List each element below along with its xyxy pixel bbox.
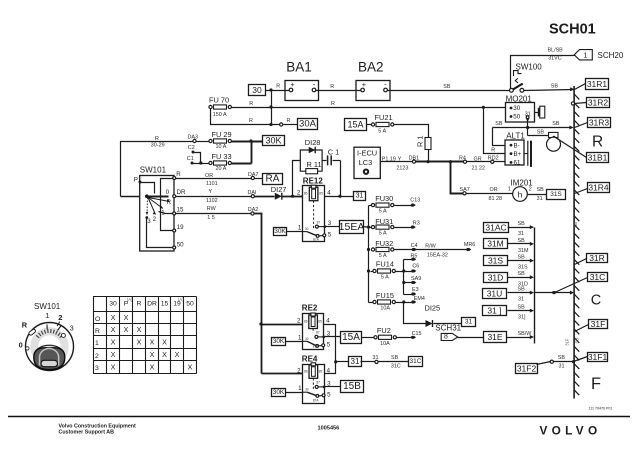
svg-text:X: X xyxy=(111,350,116,359)
wire SB row to ground bus xyxy=(493,121,574,129)
svg-text:SB: SB xyxy=(518,221,526,227)
svg-text:30-29: 30-29 xyxy=(151,143,165,149)
svg-text:GR: GR xyxy=(474,157,482,163)
node RD2 xyxy=(488,155,499,163)
svg-text:10A: 10A xyxy=(380,341,390,347)
svg-text:O: O xyxy=(95,316,100,323)
svg-text:DA2: DA2 xyxy=(248,207,258,213)
svg-text:111 70476 P01: 111 70476 P01 xyxy=(589,407,613,411)
terminal 31F2 with wire xyxy=(516,355,574,374)
fuse FU29 xyxy=(209,130,232,150)
svg-text:RA: RA xyxy=(266,174,280,185)
wire RW 15 row (15 terminal) xyxy=(176,206,252,221)
wire RD2 to ALT1 61 xyxy=(494,161,510,163)
svg-text:1101: 1101 xyxy=(206,181,218,187)
box 31C (RE4 row) xyxy=(409,357,423,367)
svg-text:DI28: DI28 xyxy=(305,138,321,147)
diode DI25 xyxy=(425,304,441,328)
box 31S (IM201) xyxy=(547,190,566,200)
diode DI28 with loop xyxy=(300,138,322,171)
svg-text:X: X xyxy=(111,363,116,372)
svg-text:31: 31 xyxy=(465,319,473,326)
svg-text:87: 87 xyxy=(316,381,320,385)
svg-text:30: 30 xyxy=(252,85,262,95)
svg-text:31S: 31S xyxy=(550,191,562,198)
wire FU15 to EM4 xyxy=(369,296,425,304)
svg-text:DI25: DI25 xyxy=(425,304,441,313)
svg-text:15: 15 xyxy=(177,207,184,214)
svg-text:1: 1 xyxy=(95,340,99,347)
svg-text:C15: C15 xyxy=(412,331,422,337)
fuse FU33 xyxy=(209,152,232,172)
terminal 31M xyxy=(484,239,508,249)
svg-text:2: 2 xyxy=(58,313,62,322)
wire fuse bus vertical xyxy=(367,206,370,303)
fuse FU30 xyxy=(369,205,372,207)
svg-text:85: 85 xyxy=(318,320,322,324)
svg-text:1: 1 xyxy=(298,334,302,341)
box 31 (RE12) xyxy=(354,192,366,201)
terminal 31R3 xyxy=(575,123,588,128)
fuse FU21 xyxy=(367,124,372,126)
ignition key switch SW101 (pictorial) xyxy=(19,302,74,371)
svg-text:10 A: 10 A xyxy=(216,144,227,150)
battery BA1 xyxy=(285,60,319,101)
svg-text:Y: Y xyxy=(398,157,402,163)
wire 15EA to fuse bus xyxy=(363,226,372,229)
box 30A xyxy=(298,119,318,130)
svg-text:30K: 30K xyxy=(274,228,286,235)
wire FU70 feed to 30A xyxy=(211,109,298,127)
ignition switch SW101 (contact diagram) xyxy=(134,165,186,251)
svg-text:31C: 31C xyxy=(590,272,606,282)
fuse FU2 xyxy=(362,337,374,339)
svg-text:X: X xyxy=(162,338,167,347)
wire 30K to RE2 pin1 xyxy=(286,341,303,343)
svg-text:R: R xyxy=(287,118,291,124)
svg-text:2: 2 xyxy=(153,216,157,223)
svg-text:150 A: 150 A xyxy=(213,112,227,118)
svg-text:31C: 31C xyxy=(391,364,401,370)
svg-text:FU32: FU32 xyxy=(375,239,393,248)
svg-text:50: 50 xyxy=(177,242,184,249)
svg-text:SB: SB xyxy=(518,255,526,261)
box 15B xyxy=(341,381,364,393)
svg-text:31: 31 xyxy=(356,193,364,200)
box 31 (RE4 row) xyxy=(336,361,349,363)
wire SW101-30 entry xyxy=(121,196,140,198)
svg-text:BL/SB: BL/SB xyxy=(548,48,564,54)
wire 31U row to ground bus xyxy=(535,291,575,295)
off-page connector SCH31 xyxy=(435,324,461,341)
svg-text:R: R xyxy=(276,84,280,90)
svg-text:2: 2 xyxy=(95,353,99,360)
wire FU33 to junction xyxy=(232,163,252,165)
svg-text:2: 2 xyxy=(529,187,532,193)
svg-text:3: 3 xyxy=(70,323,74,332)
svg-text:2: 2 xyxy=(297,190,301,197)
node DB1 xyxy=(409,156,420,164)
svg-text:31AC: 31AC xyxy=(485,223,506,233)
svg-text:C1: C1 xyxy=(187,156,194,162)
node DA1 xyxy=(248,190,257,198)
terminal 31S xyxy=(484,256,508,266)
svg-text:50: 50 xyxy=(513,114,520,121)
svg-text:SB: SB xyxy=(391,355,399,361)
node R5 xyxy=(404,254,418,261)
svg-text:5 A: 5 A xyxy=(379,231,387,237)
svg-text:10A: 10A xyxy=(380,305,390,311)
wire RE4 pin3 to 15B xyxy=(325,386,341,388)
terminal 31E xyxy=(484,332,507,343)
svg-text:31S: 31S xyxy=(518,265,528,271)
wire bolt to 31B1 xyxy=(556,138,587,158)
svg-text:31M: 31M xyxy=(487,239,504,249)
svg-text:19: 19 xyxy=(177,224,184,231)
svg-text:SCH01: SCH01 xyxy=(549,22,596,38)
wire down to IM201 row xyxy=(451,162,463,194)
svg-text:R: R xyxy=(137,301,142,308)
wire C2/C1 junction xyxy=(193,153,209,165)
svg-text:X: X xyxy=(111,313,116,322)
svg-text:FU 33: FU 33 xyxy=(212,152,232,161)
svg-text:SCH20: SCH20 xyxy=(598,51,624,60)
box 30K at RE2 pin1 xyxy=(272,338,286,346)
svg-text:R: R xyxy=(167,199,172,206)
svg-text:FU2: FU2 xyxy=(377,326,391,335)
svg-text:BA1: BA1 xyxy=(286,60,312,75)
wire FU29 to 30K xyxy=(232,139,263,163)
svg-text:50: 50 xyxy=(186,301,194,308)
terminal 31C (C section) xyxy=(553,278,588,295)
svg-text:Y: Y xyxy=(209,189,213,195)
resistor R11 xyxy=(306,160,322,174)
wire 30K to RE4 pin1 xyxy=(286,392,303,394)
svg-text:31R2: 31R2 xyxy=(588,98,609,108)
terminal 31R4 xyxy=(575,189,588,194)
svg-text:85: 85 xyxy=(319,369,323,373)
svg-text:87: 87 xyxy=(316,331,320,335)
fuse FU31 xyxy=(371,217,394,236)
switch position table xyxy=(93,297,197,374)
svg-text:31R1: 31R1 xyxy=(587,79,608,89)
svg-text:30: 30 xyxy=(513,105,520,112)
svg-text:31 ]: 31 ] xyxy=(487,306,501,316)
svg-text:EM4: EM4 xyxy=(414,296,425,302)
svg-text:1102: 1102 xyxy=(206,198,218,204)
node DA2 xyxy=(248,207,258,215)
svg-text:5 A: 5 A xyxy=(378,129,386,135)
svg-text:R: R xyxy=(249,118,253,124)
svg-text:15EA-32: 15EA-32 xyxy=(427,253,448,259)
svg-text:86: 86 xyxy=(304,320,308,324)
svg-text:8: 8 xyxy=(444,334,448,341)
wire DA7 to RA xyxy=(255,178,263,180)
svg-text:5 A: 5 A xyxy=(381,274,389,280)
svg-text:SB: SB xyxy=(518,238,526,244)
wire ALT1 B- loop xyxy=(493,128,506,146)
svg-text:R/W: R/W xyxy=(425,243,436,249)
wire battery row y=90 xyxy=(266,84,575,91)
svg-text:X: X xyxy=(188,363,193,372)
svg-text:X: X xyxy=(150,338,155,347)
svg-text:R 1: R 1 xyxy=(416,135,425,147)
svg-text:SB: SB xyxy=(552,121,560,127)
svg-text:X: X xyxy=(137,325,142,334)
svg-text:R: R xyxy=(176,171,181,178)
svg-text:1005456: 1005456 xyxy=(318,426,340,432)
svg-text:30: 30 xyxy=(305,227,309,231)
svg-text:2: 2 xyxy=(297,318,301,325)
svg-text:R5: R5 xyxy=(411,254,418,260)
svg-text:(A): (A) xyxy=(178,297,184,302)
node SA9 xyxy=(404,276,422,284)
svg-text:X: X xyxy=(175,350,180,359)
svg-text:C2: C2 xyxy=(188,145,195,151)
svg-text:5: 5 xyxy=(327,341,331,348)
svg-text:31: 31 xyxy=(351,357,360,366)
svg-text:X: X xyxy=(150,363,155,372)
wire bus y=107 to MO201 xyxy=(232,101,510,109)
wire R1 to DB1 row xyxy=(426,150,429,164)
wire RE12 pin4 to 31 box xyxy=(325,196,354,198)
ground bus R/C/F xyxy=(574,86,579,399)
svg-text:P1.19: P1.19 xyxy=(382,157,396,163)
svg-text:VOLVO: VOLVO xyxy=(540,424,602,438)
svg-text:31F1: 31F1 xyxy=(588,352,608,362)
svg-text:20 A: 20 A xyxy=(216,166,227,172)
svg-text:SB: SB xyxy=(537,129,545,135)
terminal 31U xyxy=(483,289,507,299)
svg-text:87A: 87A xyxy=(313,237,320,241)
node E3 xyxy=(404,287,419,296)
svg-text:FU31: FU31 xyxy=(375,217,393,226)
svg-text:31R4: 31R4 xyxy=(588,183,609,193)
box 15A (RE2) xyxy=(341,332,362,344)
bus 31 collector vertical xyxy=(534,228,536,344)
svg-text:31S: 31S xyxy=(488,256,503,266)
svg-text:31F: 31F xyxy=(591,319,606,329)
hour meter IM201 xyxy=(511,179,534,202)
svg-text:15EA: 15EA xyxy=(339,221,365,233)
battery BA2 xyxy=(356,60,390,101)
svg-text:31B1: 31B1 xyxy=(588,153,608,163)
box 30K at RE12 pin1 xyxy=(274,228,287,236)
svg-text:31F: 31F xyxy=(565,338,570,346)
svg-text:X: X xyxy=(111,325,116,334)
svg-text:30K: 30K xyxy=(265,136,281,146)
svg-text:21 22: 21 22 xyxy=(472,166,486,172)
starter motor symbol xyxy=(535,106,545,118)
svg-text:30A: 30A xyxy=(299,119,317,130)
svg-text:DA7: DA7 xyxy=(248,172,259,178)
off-page connector SCH20 xyxy=(574,50,624,60)
svg-text:15A: 15A xyxy=(347,120,363,130)
svg-text:RE2: RE2 xyxy=(302,304,318,313)
svg-text:B-: B- xyxy=(514,142,520,149)
wire FU32 R/W to MR6 xyxy=(395,242,476,259)
wire FU31 to R3 xyxy=(395,220,420,228)
svg-text:31: 31 xyxy=(373,355,379,361)
svg-text:15B: 15B xyxy=(343,381,361,392)
svg-text:R3: R3 xyxy=(413,220,420,226)
svg-text:31F2: 31F2 xyxy=(517,364,537,374)
terminal 31 ] xyxy=(483,306,507,316)
svg-text:1: 1 xyxy=(298,225,302,232)
svg-text:C13: C13 xyxy=(410,198,420,204)
svg-text:E3: E3 xyxy=(412,287,419,293)
node DA3 xyxy=(188,134,199,142)
ground bolt B1 xyxy=(547,132,561,151)
fuse FU15 xyxy=(373,291,396,311)
svg-text:SB: SB xyxy=(495,121,503,127)
box 15EA xyxy=(339,221,365,234)
svg-text:31R: 31R xyxy=(589,253,605,263)
wire R 30-29 from SW101 feed xyxy=(121,136,193,197)
starter relay MO201 xyxy=(506,95,535,123)
svg-text:R 11: R 11 xyxy=(307,160,322,169)
svg-text:SB: SB xyxy=(518,305,526,311)
svg-text:C6: C6 xyxy=(412,264,419,270)
svg-text:SB: SB xyxy=(443,84,451,90)
svg-text:31: 31 xyxy=(518,297,524,303)
wire DI25 to 31 box xyxy=(434,323,462,325)
node C1 xyxy=(187,156,194,165)
box 15A (FU21 feed) xyxy=(345,119,367,131)
svg-text:SCH31: SCH31 xyxy=(435,324,461,333)
svg-text:31: 31 xyxy=(537,196,543,202)
svg-text:R: R xyxy=(491,148,495,154)
svg-text:X: X xyxy=(111,338,116,347)
switch SW100 xyxy=(510,62,543,92)
wire DA2 down to RE2/RE4 xyxy=(255,214,263,374)
svg-text:31VC: 31VC xyxy=(548,56,562,62)
svg-text:DR: DR xyxy=(147,301,157,308)
wire DA3 to FU29 xyxy=(197,141,209,143)
svg-text:Customer Support AB: Customer Support AB xyxy=(59,429,115,435)
wire suppression loop left leg xyxy=(293,161,301,197)
svg-text:87: 87 xyxy=(317,220,321,224)
terminal 31B1 xyxy=(587,153,609,163)
terminal 31F1 xyxy=(572,357,588,364)
svg-text:2123: 2123 xyxy=(396,165,408,171)
svg-text:FU 29: FU 29 xyxy=(212,130,232,139)
svg-text:RE4: RE4 xyxy=(302,355,318,364)
svg-text:30: 30 xyxy=(305,388,309,392)
svg-text:SB/W: SB/W xyxy=(518,331,533,337)
svg-text:R: R xyxy=(592,133,603,150)
box 31 (DI25) xyxy=(462,318,476,327)
relay RE12 xyxy=(297,176,332,241)
svg-text:F: F xyxy=(591,375,601,393)
svg-text:15A: 15A xyxy=(342,332,360,343)
wire SA7 to IM201 xyxy=(467,187,513,202)
svg-text:30: 30 xyxy=(305,337,309,341)
svg-text:MR6: MR6 xyxy=(464,242,475,248)
svg-text:SB: SB xyxy=(518,287,526,293)
svg-text:X: X xyxy=(150,350,155,359)
rotated labels 31F SB (C-F) xyxy=(565,338,580,346)
terminal 31R2 xyxy=(571,102,586,105)
svg-text:SB: SB xyxy=(518,271,526,277)
svg-text:RD2: RD2 xyxy=(488,155,499,161)
svg-text:X: X xyxy=(124,325,129,334)
node SA7 xyxy=(460,187,470,195)
svg-text:1: 1 xyxy=(583,51,587,60)
svg-text:1: 1 xyxy=(45,311,49,320)
wire MO201-31 down xyxy=(526,119,529,136)
svg-text:I-ECU: I-ECU xyxy=(357,149,377,158)
wire I-ECU 2123 row xyxy=(381,157,413,172)
wire DB1 to ALT1 row xyxy=(416,155,466,163)
svg-text:5: 5 xyxy=(327,391,331,398)
svg-text:15: 15 xyxy=(161,301,169,308)
svg-text:DR: DR xyxy=(177,189,186,196)
svg-text:30K: 30K xyxy=(273,338,285,345)
relay RE4 xyxy=(297,355,331,404)
terminal 31AC xyxy=(484,223,509,233)
wire DA1 to DI27 xyxy=(255,196,275,198)
svg-text:C4: C4 xyxy=(411,243,418,249)
svg-text:85: 85 xyxy=(319,192,323,196)
svg-text:X: X xyxy=(124,313,129,322)
svg-text:X: X xyxy=(162,350,167,359)
svg-text:5 A: 5 A xyxy=(379,209,387,215)
svg-text:X: X xyxy=(137,338,142,347)
svg-text:1: 1 xyxy=(298,385,302,392)
svg-text:30K: 30K xyxy=(273,389,285,396)
box 30 terminal xyxy=(249,85,266,96)
wire 31 to 31C xyxy=(361,355,409,370)
svg-text:SA7: SA7 xyxy=(460,187,470,193)
wire RE2 pin3 to 15A xyxy=(324,336,341,338)
svg-text:2: 2 xyxy=(297,367,301,374)
wire SCH31 to 31E xyxy=(458,337,484,339)
svg-text:FU21: FU21 xyxy=(375,113,393,122)
svg-text:31E: 31E xyxy=(487,332,502,342)
wire 30-box drop x=271 xyxy=(269,88,272,126)
wire loop right leg to pin4 row xyxy=(338,161,341,198)
svg-text:OR: OR xyxy=(490,187,498,193)
wire IM201 to 31S xyxy=(528,187,547,202)
wire DI27 to RE12 pin2 xyxy=(283,195,305,198)
svg-text:86: 86 xyxy=(304,192,308,196)
svg-text:0: 0 xyxy=(19,340,23,349)
svg-text:31M: 31M xyxy=(518,248,529,254)
footer rule xyxy=(8,416,630,418)
wire FU30 to C13 xyxy=(395,198,421,207)
svg-text:R: R xyxy=(95,328,100,335)
wire FU21 to R1 xyxy=(395,125,429,138)
svg-text:C: C xyxy=(591,292,601,308)
wire OR 1101 row (R terminal to RA) xyxy=(176,173,252,187)
svg-text:R: R xyxy=(22,321,28,330)
svg-text:(A): (A) xyxy=(127,297,133,302)
svg-text:31D: 31D xyxy=(488,273,504,283)
wire Y 1102 row (DR terminal) xyxy=(176,189,252,204)
svg-text:OR: OR xyxy=(205,173,213,179)
svg-text:BA2: BA2 xyxy=(358,60,384,75)
ECU I-ECU LC3 xyxy=(354,147,380,178)
svg-text:3: 3 xyxy=(95,365,99,372)
svg-text:DI27: DI27 xyxy=(271,185,287,194)
svg-text:LC3: LC3 xyxy=(359,158,373,167)
svg-text:FU15: FU15 xyxy=(376,291,394,300)
box 30K at RE4 pin1 xyxy=(272,389,286,397)
alternator ALT1 xyxy=(505,132,531,167)
svg-text:31C: 31C xyxy=(410,358,422,365)
wire RE12 pin3 to 15EA xyxy=(325,226,340,228)
